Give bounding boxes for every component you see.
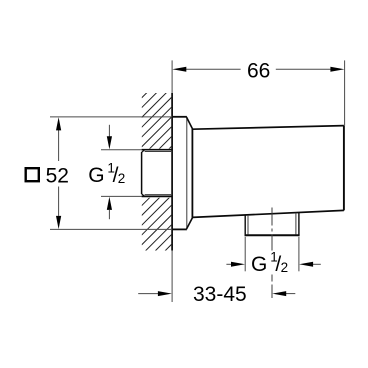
dimension G1/2 left (thread size): [88, 125, 141, 219]
outlet stub G1/2 (bottom): [245, 213, 300, 236]
dimension 33-45 (bottom, wall to outlet axis): [138, 283, 295, 306]
dimension G1/2 bottom (outlet thread): [226, 237, 320, 276]
svg-text:G: G: [88, 164, 104, 187]
svg-text:33-45: 33-45: [193, 283, 247, 306]
svg-text:2: 2: [118, 171, 126, 186]
svg-text:2: 2: [281, 260, 289, 275]
wall section edge (mounting face) with extension continuations: [171, 60, 173, 302]
dimension square 52 (left): [26, 117, 172, 229]
svg-text:G: G: [251, 253, 267, 276]
threaded inlet nipple G1/2 (behind wall): [141, 150, 172, 197]
escutcheon plate 52x52: [172, 117, 187, 230]
dimension 66 (top): [172, 59, 344, 125]
cone body: [187, 117, 344, 229]
svg-text:66: 66: [247, 59, 270, 82]
svg-text:52: 52: [46, 164, 69, 187]
centerline of outlet (upper segment): [271, 208, 273, 251]
wall hatching: [142, 57, 173, 284]
centerline of outlet (lower segment): [271, 275, 273, 299]
